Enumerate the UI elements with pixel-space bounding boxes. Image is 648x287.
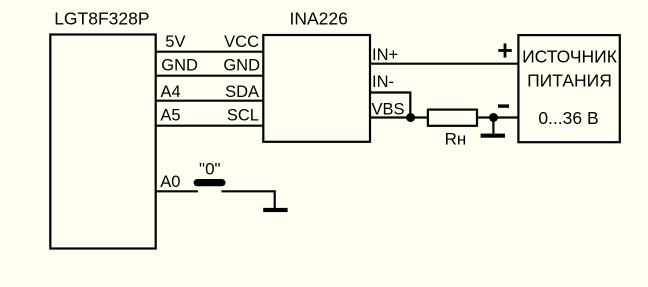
plus terminal [498,43,512,57]
svg-text:"0": "0" [199,160,221,179]
wire A0 to pushbutton [156,190,198,192]
svg-text:INA226: INA226 [290,9,348,29]
label Rн [445,130,467,149]
pin label VBS [372,101,405,119]
power supply G1 body [518,35,619,142]
pin label A4 [161,83,181,101]
pin label IN- [372,73,394,91]
svg-text:A0: A0 [160,173,180,191]
label INA226 [290,9,348,29]
label ИСТОЧНИК [522,47,618,67]
wire resistor to node B [477,116,494,118]
pin label GND left [161,56,198,74]
label ПИТАНИЯ [527,70,612,90]
wire 5V-VCC [156,51,264,53]
svg-text:VBS: VBS [372,101,405,119]
svg-text:5V: 5V [165,33,185,51]
svg-text:A5: A5 [160,107,180,125]
wire IN- down to node A [370,93,410,118]
wire pushbutton to ground [222,191,275,208]
pin label GND right [223,56,260,74]
ground GND2 [263,208,287,212]
minus terminal [498,104,509,107]
pin label SDA [225,83,259,101]
svg-text:ИСТОЧНИК: ИСТОЧНИК [522,47,618,67]
wire node B to power supply minus [494,116,519,118]
svg-text:LGT8F328P: LGT8F328P [54,9,149,29]
pin label A0 [160,173,180,191]
svg-text:IN+: IN+ [372,46,398,64]
wire A4-SDA [156,100,264,102]
pushbutton S1 [194,179,226,186]
svg-text:A4: A4 [161,83,181,101]
svg-text:VCC: VCC [224,33,259,51]
pin label 5V [165,33,185,51]
resistor Rн [428,110,477,126]
junction node B [489,113,498,122]
microcontroller U1 LGT8F328P body [50,35,155,249]
label LGT8F328P [54,9,149,29]
svg-text:ПИТАНИЯ: ПИТАНИЯ [527,70,612,90]
svg-text:GND: GND [223,56,260,74]
IC U2 INA226 body [263,35,370,142]
wire IN+ to power supply plus [370,63,518,65]
svg-text:IN-: IN- [372,73,394,91]
junction node A [406,113,415,122]
svg-text:SCL: SCL [227,107,259,125]
svg-text:GND: GND [161,56,198,74]
svg-text:0...36 В: 0...36 В [538,108,598,128]
label "0" [199,160,221,179]
wire GND-GND [156,75,264,77]
pin label IN+ [372,46,398,64]
ground GND1 [481,118,505,138]
pin label VCC [224,33,259,51]
wire VBS to node A [370,116,411,118]
svg-text:SDA: SDA [225,83,259,101]
wire A5-SCL [156,125,264,127]
wire node A to resistor [411,116,428,118]
label 0...36 В [538,108,598,128]
pin label A5 [160,107,180,125]
svg-text:Rн: Rн [445,130,467,149]
pin label SCL [227,107,259,125]
